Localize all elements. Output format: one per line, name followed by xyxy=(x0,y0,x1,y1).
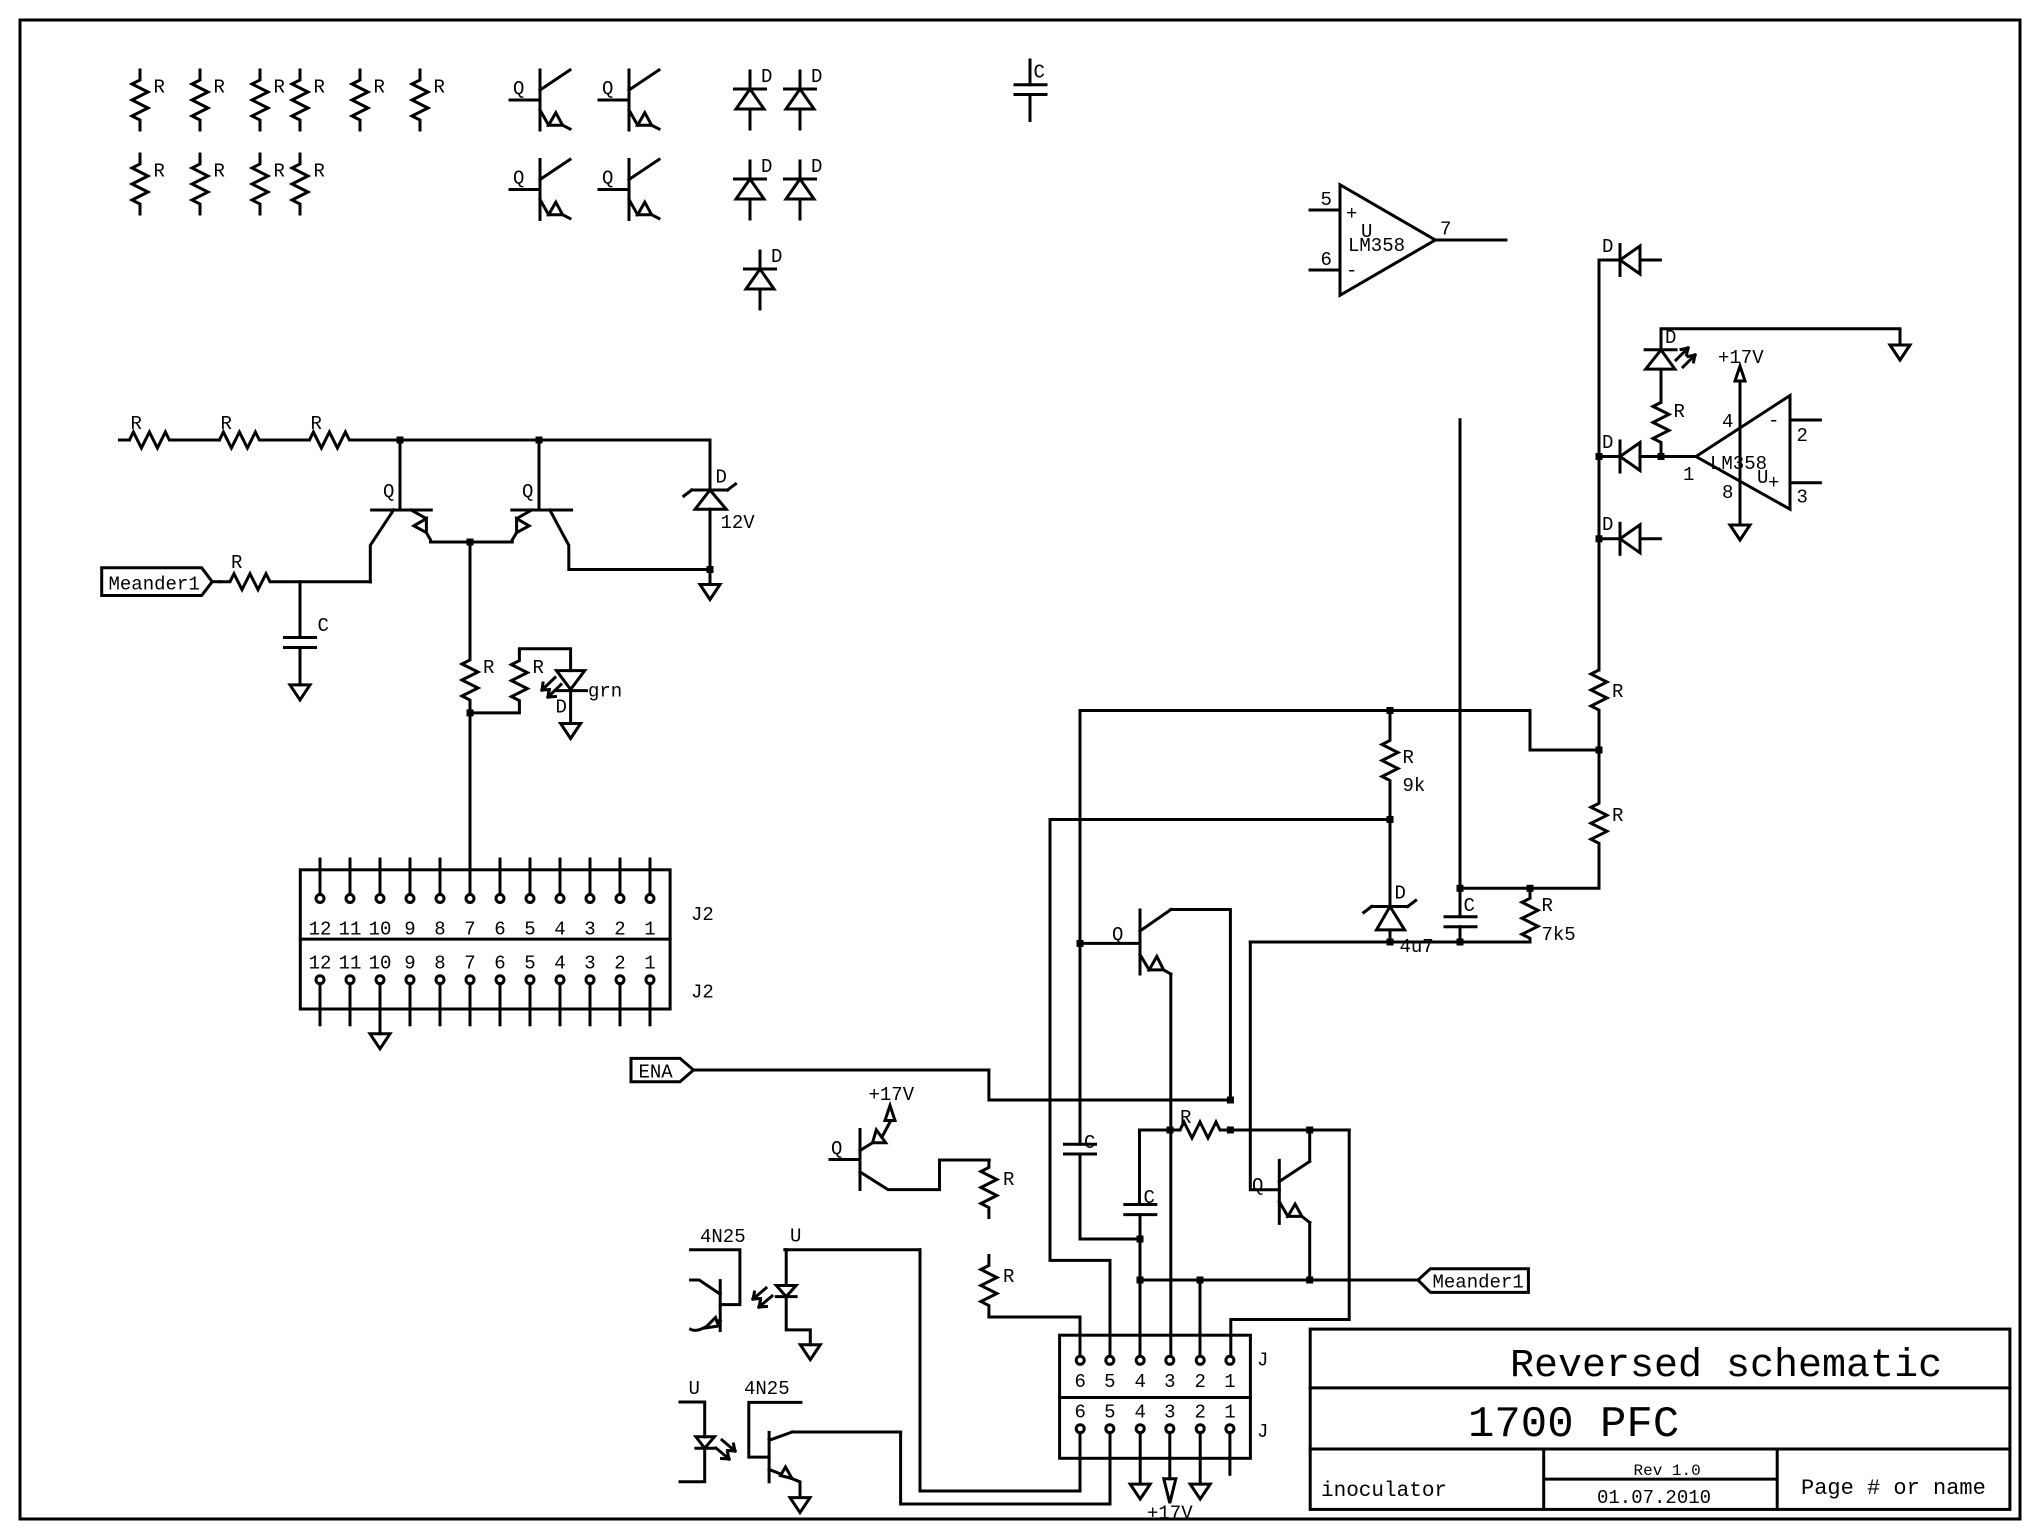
supply +17V arrow down (pin3 of J) xyxy=(1147,1479,1193,1525)
resistor R (spare 10) xyxy=(292,154,325,214)
wire pin 2 of U right xyxy=(1790,420,1820,447)
wire y942 bottom horizontal xyxy=(1250,941,1530,944)
transistor Q (left pair 1) xyxy=(370,440,431,582)
wire ENA net xyxy=(694,1070,1231,1100)
pin 5 top of J2 xyxy=(524,859,535,941)
node Q1 base junction xyxy=(397,437,404,444)
wire pin2 bottom xyxy=(1199,1433,1202,1484)
connector J divider xyxy=(1060,1396,1251,1399)
resistor R (spare 4) xyxy=(292,70,325,130)
arrows light opto2 xyxy=(716,1440,735,1459)
svg-text:11: 11 xyxy=(339,919,362,941)
transistor Q (spare 1) xyxy=(510,70,570,130)
svg-text:ENA: ENA xyxy=(639,1062,674,1084)
pin 8 top of J2 xyxy=(434,859,445,941)
svg-text:8: 8 xyxy=(1722,482,1733,504)
wire x1080 vertical xyxy=(1079,711,1082,1145)
wire LED to resistor xyxy=(1660,369,1663,402)
svg-text:+: + xyxy=(1768,472,1779,494)
svg-text:7: 7 xyxy=(1440,219,1451,241)
node zener ground junction xyxy=(707,566,714,573)
svg-text:R: R xyxy=(274,161,285,183)
svg-text:1: 1 xyxy=(644,952,655,974)
pin 12 bottom of J2 xyxy=(309,952,332,1024)
wire long vertical x1460 xyxy=(1459,420,1462,889)
resistor R (spare 2) xyxy=(192,70,225,130)
svg-text:Meander1: Meander1 xyxy=(109,574,200,596)
svg-text:5: 5 xyxy=(1104,1371,1115,1393)
node R left junction xyxy=(1167,1127,1174,1134)
svg-text:+: + xyxy=(1346,203,1357,225)
transistor Q (middle upper) xyxy=(1112,910,1171,975)
node R9k bottom junction xyxy=(1387,816,1394,823)
resistor R (chain 3) xyxy=(299,413,359,448)
title block dividers xyxy=(1310,1388,2010,1510)
resistor R (right rail upper) xyxy=(1591,660,1623,750)
pin 5 top of J xyxy=(1104,1356,1115,1393)
svg-text:-: - xyxy=(1768,410,1779,432)
svg-text:8: 8 xyxy=(434,952,445,974)
svg-text:12V: 12V xyxy=(721,512,756,534)
pin 3 top of J xyxy=(1164,1356,1175,1393)
capacitor C (x1080 ENA) xyxy=(1065,1132,1141,1239)
diode D (spare 2) xyxy=(785,66,823,129)
wire x470 to J2 pin7 xyxy=(469,713,472,895)
svg-text:4N25: 4N25 xyxy=(700,1226,746,1248)
resistor R (spare 7) xyxy=(132,154,165,214)
svg-text:R: R xyxy=(154,77,165,99)
pin 5 bottom of J xyxy=(1104,1401,1115,1432)
svg-text:2: 2 xyxy=(1797,425,1808,447)
svg-text:8: 8 xyxy=(434,919,445,941)
svg-text:R: R xyxy=(311,413,322,435)
svg-text:3: 3 xyxy=(1164,1401,1175,1423)
svg-text:-: - xyxy=(1346,260,1357,282)
pin 4 top of J xyxy=(1135,1356,1146,1393)
wire Q3 emitter down xyxy=(1308,1223,1311,1281)
wire diode D top right leads xyxy=(1599,259,1660,262)
svg-text:+17V: +17V xyxy=(1147,1503,1193,1525)
svg-text:6: 6 xyxy=(494,919,505,941)
capacitor C (spare) xyxy=(1015,60,1046,121)
svg-text:7: 7 xyxy=(464,919,475,941)
svg-text:LM358: LM358 xyxy=(1348,235,1405,257)
svg-text:Reversed schematic: Reversed schematic xyxy=(1510,1344,1942,1389)
svg-text:4N25: 4N25 xyxy=(744,1378,790,1400)
pin 1 top of J2 xyxy=(644,859,655,941)
svg-text:Q: Q xyxy=(513,168,524,190)
wire pin 4 power of U right xyxy=(1722,381,1740,525)
pin 5 bottom of J2 xyxy=(524,952,535,1024)
pin 6 top of J2 xyxy=(494,859,505,941)
wire R2 top to LED top xyxy=(519,649,570,671)
pin 4 bottom of J xyxy=(1135,1401,1146,1432)
LED D grn xyxy=(542,671,622,719)
pin 11 top of J2 xyxy=(339,859,362,941)
capacitor C (x1460) xyxy=(1445,888,1476,942)
resistor R (spare 3) xyxy=(252,70,285,130)
svg-text:D: D xyxy=(1602,236,1613,258)
resistor R 9k xyxy=(1382,711,1425,820)
svg-text:R: R xyxy=(1180,1107,1191,1129)
svg-text:inoculator: inoculator xyxy=(1321,1480,1447,1503)
svg-text:U: U xyxy=(790,1226,801,1248)
wire pin 6 of U1 xyxy=(1310,249,1340,271)
op-amp U LM358 (top) xyxy=(1340,185,1435,296)
node zener bottom junction xyxy=(1387,939,1394,946)
node diode mid junction xyxy=(1596,453,1603,460)
svg-text:Q: Q xyxy=(522,481,533,503)
svg-text:+17V: +17V xyxy=(1718,347,1764,369)
resistor R (spare 8) xyxy=(192,154,225,214)
svg-text:3: 3 xyxy=(1164,1371,1175,1393)
svg-text:R: R xyxy=(1003,1169,1014,1191)
svg-text:C: C xyxy=(1034,62,1045,84)
transistor Q (left pair 2) xyxy=(512,440,710,570)
svg-text:12: 12 xyxy=(309,952,332,974)
wire junction to R2 bottom xyxy=(470,711,519,714)
pin 11 bottom of J2 xyxy=(339,952,362,1024)
wire diode D bottom leads xyxy=(1599,537,1660,540)
pin 1 bottom of J2 xyxy=(644,952,655,1024)
wire top right to ground xyxy=(1661,329,1900,350)
svg-text:11: 11 xyxy=(339,952,362,974)
svg-text:R: R xyxy=(314,161,325,183)
wire y1130 horizontal with R xyxy=(1140,1129,1350,1132)
svg-text:C: C xyxy=(1084,1132,1095,1154)
svg-text:9: 9 xyxy=(404,952,415,974)
svg-text:R: R xyxy=(314,77,325,99)
node Meander pin2 junction xyxy=(1197,1277,1204,1284)
wire pin6 bottom to opto1 xyxy=(920,1250,1080,1491)
wire opto2 collector to pin5 route xyxy=(792,1431,901,1434)
connector J box xyxy=(1060,1335,1251,1458)
transistor Q (spare 3) xyxy=(510,160,570,220)
svg-text:3: 3 xyxy=(584,919,595,941)
ground (J2 pin10) xyxy=(370,1034,390,1049)
svg-text:10: 10 xyxy=(369,952,392,974)
svg-text:Q: Q xyxy=(602,168,613,190)
resistor R (LED parallel) xyxy=(511,650,544,712)
LED D (right side) xyxy=(1645,327,1695,369)
diode D (top right) xyxy=(1602,236,1640,276)
svg-text:R: R xyxy=(131,413,142,435)
svg-text:R: R xyxy=(1542,895,1553,917)
svg-text:6: 6 xyxy=(1075,1401,1086,1423)
svg-text:5: 5 xyxy=(524,919,535,941)
arrows light opto1 xyxy=(753,1288,772,1307)
svg-text:5: 5 xyxy=(524,952,535,974)
svg-text:4: 4 xyxy=(1722,411,1733,433)
resistor R (right LED series) xyxy=(1653,392,1685,455)
svg-text:D: D xyxy=(761,156,772,178)
svg-text:C: C xyxy=(318,615,329,637)
LED of opto 4N25 upper xyxy=(776,1250,810,1345)
capacitor C (x1140 middle) xyxy=(1125,1130,1156,1356)
op-amp U LM358 (right) xyxy=(1683,396,1790,510)
ground (LED grn) xyxy=(561,724,581,739)
wire opto1 LED top to pin6 route xyxy=(786,1248,920,1251)
wire y710 horizontal xyxy=(1080,709,1530,712)
wire emitters to x470 xyxy=(431,541,513,544)
svg-text:R: R xyxy=(374,77,385,99)
resistor R (spare 9) xyxy=(252,154,285,214)
wire Q3 base from x1250 xyxy=(1250,942,1279,1190)
wire Meander1 net y1280 xyxy=(1140,1279,1418,1282)
diode D (spare 1) xyxy=(735,66,773,129)
transistor of opto 4N25 lower xyxy=(749,1402,801,1496)
svg-text:6: 6 xyxy=(1075,1371,1086,1393)
svg-text:D: D xyxy=(771,246,782,268)
wire ENA resistor bottom to pin6 xyxy=(989,1317,1080,1356)
svg-text:R: R xyxy=(1003,1266,1014,1288)
svg-text:Q: Q xyxy=(383,481,394,503)
svg-text:D: D xyxy=(1602,514,1613,536)
transistor Q (spare 2) xyxy=(599,70,659,130)
svg-text:R: R xyxy=(274,77,285,99)
svg-text:Q: Q xyxy=(1252,1175,1263,1197)
svg-text:R: R xyxy=(434,77,445,99)
svg-text:R: R xyxy=(214,77,225,99)
pin 4 bottom of J2 xyxy=(554,952,565,1024)
svg-text:2: 2 xyxy=(1195,1401,1206,1423)
resistor R (ENA lower) xyxy=(981,1256,1015,1317)
wire top chain y440 xyxy=(121,439,710,442)
svg-text:grn: grn xyxy=(588,681,622,703)
pin 2 bottom of J2 xyxy=(614,952,625,1024)
pin 8 bottom of J2 xyxy=(434,952,445,1024)
wire Meander1 to R xyxy=(212,580,220,583)
svg-text:C: C xyxy=(1464,895,1475,917)
svg-text:Meander1: Meander1 xyxy=(1433,1272,1524,1294)
svg-text:R: R xyxy=(221,413,232,435)
wire pin 7 of U1 xyxy=(1435,219,1506,241)
pin 6 bottom of J xyxy=(1075,1401,1086,1432)
node Q2 base junction xyxy=(536,437,543,444)
LED of opto 4N25 lower xyxy=(680,1402,714,1482)
node Meander emitter junction xyxy=(1306,1277,1313,1284)
svg-text:5: 5 xyxy=(1104,1401,1115,1423)
flag ENA xyxy=(631,1058,694,1083)
wire pin3 bottom xyxy=(1168,1433,1171,1479)
wire pin5 bottom to opto2 xyxy=(901,1432,1110,1504)
pin 3 top of J2 xyxy=(584,859,595,941)
svg-text:4: 4 xyxy=(1135,1401,1146,1423)
resistor R (chain 2) xyxy=(209,413,269,448)
svg-text:3: 3 xyxy=(584,952,595,974)
node R right junction xyxy=(1227,1127,1234,1134)
pin 9 bottom of J2 xyxy=(404,952,415,1024)
svg-text:R: R xyxy=(154,161,165,183)
diode D (spare 4) xyxy=(785,156,823,219)
svg-text:Q: Q xyxy=(831,1138,842,1160)
wire Q middle base xyxy=(1080,942,1140,945)
pin 10 bottom of J2 xyxy=(369,952,392,1033)
resistor R (spare 5) xyxy=(352,70,385,130)
svg-text:R: R xyxy=(214,161,225,183)
connector J2 divider xyxy=(300,938,670,941)
svg-text:1700 PFC: 1700 PFC xyxy=(1468,1400,1679,1450)
pin 3 bottom of J2 xyxy=(584,952,595,1024)
wire x470 emitter to R xyxy=(469,542,472,650)
zener diode D 12V xyxy=(684,440,756,570)
svg-text:2: 2 xyxy=(614,919,625,941)
svg-text:1: 1 xyxy=(644,919,655,941)
svg-text:Page # or name: Page # or name xyxy=(1801,1476,1986,1501)
svg-text:D: D xyxy=(1665,327,1676,349)
resistor R (horizontal, middle) xyxy=(1170,1107,1229,1138)
node Q base junction x1080 xyxy=(1077,940,1084,947)
pin 4 top of J2 xyxy=(554,859,565,941)
wire Q3 collector up xyxy=(1308,1130,1311,1161)
svg-text:D: D xyxy=(1602,432,1613,454)
ground (top right) xyxy=(1890,345,1910,360)
ground (zener 12V) xyxy=(709,570,712,585)
svg-text:01.07.2010: 01.07.2010 xyxy=(1597,1487,1711,1509)
wire pin1 bottom stub xyxy=(1228,1433,1231,1475)
optocoupler U 4N25 (upper) labels xyxy=(700,1226,801,1249)
pin 2 top of J2 xyxy=(614,859,625,941)
wire y888 horizontal xyxy=(1460,887,1599,890)
pin 2 top of J xyxy=(1195,1356,1206,1393)
flag Meander1 (right) xyxy=(1418,1269,1528,1294)
ground (pin2 of J) xyxy=(1190,1484,1210,1499)
diode D (spare 5) xyxy=(745,246,783,309)
wire R to Q1 collector xyxy=(283,580,371,583)
svg-text:J2: J2 xyxy=(691,982,714,1004)
pin 6 top of J xyxy=(1075,1356,1086,1393)
supply +17V arrow (right op-amp) xyxy=(1718,347,1764,381)
wire y750 horizontal xyxy=(1530,711,1599,751)
svg-text:J: J xyxy=(1257,1350,1268,1372)
svg-text:D: D xyxy=(811,156,822,178)
node C top junction xyxy=(1457,885,1464,892)
node C bottom junction xyxy=(1457,939,1464,946)
wire LED grn to ground xyxy=(569,691,572,724)
svg-text:2: 2 xyxy=(1195,1371,1206,1393)
ground (pin4 of J) xyxy=(1130,1484,1150,1499)
svg-text:10: 10 xyxy=(369,919,392,941)
node Meander C junction xyxy=(1137,1277,1144,1284)
diode D (spare 3) xyxy=(735,156,773,219)
svg-text:D: D xyxy=(761,66,772,88)
svg-text:D: D xyxy=(716,467,727,489)
transistor Q (Meander output) xyxy=(1252,1160,1310,1223)
capacitor C (Meander RC) xyxy=(285,582,329,685)
svg-text:D: D xyxy=(1395,882,1406,904)
svg-text:4: 4 xyxy=(1135,1371,1146,1393)
pin 7 top of J2 xyxy=(464,895,475,941)
svg-text:Rev 1.0: Rev 1.0 xyxy=(1634,1462,1701,1480)
wire x1349 to pin1 xyxy=(1231,1130,1349,1356)
svg-text:3: 3 xyxy=(1797,487,1808,509)
resistor R (x470) xyxy=(462,650,494,712)
svg-text:D: D xyxy=(811,66,822,88)
svg-text:6: 6 xyxy=(1321,249,1332,271)
ground (below right op-amp pin 8) xyxy=(1730,525,1750,540)
node emitter junction x470 xyxy=(467,539,474,546)
resistor R (right rail lower) xyxy=(1591,750,1623,888)
wire zener top lead xyxy=(1389,820,1392,907)
svg-text:+17V: +17V xyxy=(869,1084,915,1106)
title block box xyxy=(1310,1329,2010,1509)
svg-text:D: D xyxy=(556,697,567,719)
svg-text:4u7: 4u7 xyxy=(1400,936,1434,958)
resistor R 7k5 xyxy=(1522,888,1576,946)
resistor R (ENA upper) xyxy=(981,1160,1015,1218)
ground (opto2 emitter) xyxy=(790,1498,810,1513)
pin 6 bottom of J2 xyxy=(494,952,505,1024)
svg-text:1: 1 xyxy=(1683,464,1694,486)
node R junction y750 xyxy=(1596,747,1603,754)
transistor of opto 4N25 upper xyxy=(691,1250,740,1331)
transistor Q (spare 4) xyxy=(599,160,659,220)
svg-text:U: U xyxy=(689,1378,700,1400)
svg-text:2: 2 xyxy=(614,952,625,974)
wire pin4 bottom xyxy=(1139,1433,1142,1484)
svg-text:Q: Q xyxy=(602,78,613,100)
wire right rail vertical xyxy=(1598,260,1601,670)
zener diode D 4u7 xyxy=(1364,882,1434,958)
svg-text:U: U xyxy=(1757,467,1768,489)
resistor R (Meander series) xyxy=(220,552,280,590)
resistor R (chain 1) xyxy=(119,413,179,448)
diode D (mid right) xyxy=(1602,432,1640,472)
svg-text:J2: J2 xyxy=(691,904,714,926)
wire y819 horizontal xyxy=(1050,818,1390,821)
pin 12 top of J2 xyxy=(309,859,332,941)
node LED resistor to pin1 junction xyxy=(1658,453,1665,460)
pin 3 bottom of J xyxy=(1164,1401,1175,1432)
svg-text:7: 7 xyxy=(464,952,475,974)
wire pin 5 of U1 xyxy=(1310,189,1340,211)
svg-text:6: 6 xyxy=(494,952,505,974)
ground (opto1 LED) xyxy=(800,1345,820,1360)
pin 7 bottom of J2 xyxy=(464,952,475,1024)
wire pin5 top vertical xyxy=(1050,820,1110,1357)
svg-text:C: C xyxy=(1144,1187,1155,1209)
flag Meander1 (left) xyxy=(102,568,213,596)
pin 1 top of J xyxy=(1224,1356,1235,1393)
svg-text:4: 4 xyxy=(554,919,565,941)
svg-text:1: 1 xyxy=(1224,1401,1235,1423)
pin 10 top of J2 xyxy=(369,859,392,941)
svg-text:R: R xyxy=(1612,681,1623,703)
pin 9 top of J2 xyxy=(404,859,415,941)
svg-text:9k: 9k xyxy=(1403,775,1426,797)
svg-text:R: R xyxy=(1403,747,1414,769)
supply +17V arrow (ENA transistor) xyxy=(869,1084,915,1121)
svg-text:R: R xyxy=(1674,401,1685,423)
svg-text:Q: Q xyxy=(513,78,524,100)
transistor Q (ENA, emitter to +17V) xyxy=(830,1121,989,1190)
node ENA to collector junction xyxy=(1227,1097,1234,1104)
ground (Meander C) xyxy=(290,685,310,700)
node C2 to C3 junction xyxy=(1137,1236,1144,1243)
wire diode D mid leads xyxy=(1599,455,1661,458)
pin 2 bottom of J xyxy=(1195,1401,1206,1432)
svg-text:7k5: 7k5 xyxy=(1542,924,1576,946)
wire op-amp pin 1 input xyxy=(1661,455,1696,458)
svg-text:J: J xyxy=(1257,1421,1268,1443)
node R9k top junction xyxy=(1387,707,1394,714)
svg-text:R: R xyxy=(1612,805,1623,827)
wire Q middle collector to x1230 xyxy=(1171,910,1230,1101)
wire Q middle emitter down x1170 xyxy=(1169,974,1172,1356)
svg-text:9: 9 xyxy=(404,919,415,941)
resistor R (spare 1) xyxy=(132,70,165,130)
node R7k5 top junction xyxy=(1527,885,1534,892)
